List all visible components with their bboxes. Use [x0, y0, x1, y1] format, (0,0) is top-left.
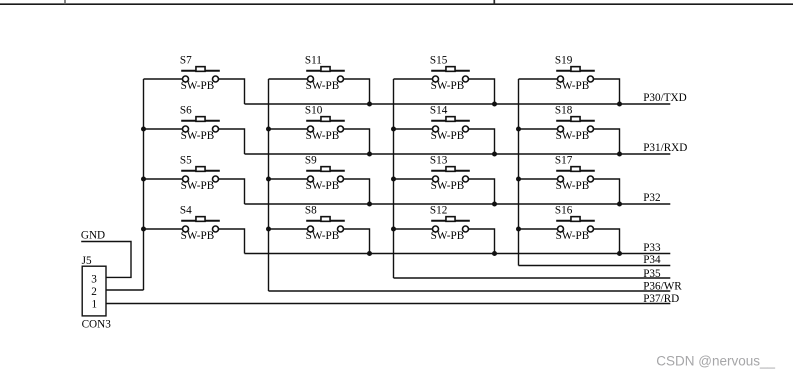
junction: column 4 bus / row 4 — [516, 227, 521, 232]
svg-text:SW-PB: SW-PB — [556, 180, 590, 192]
wire: column 4 bus to P34 line — [519, 265, 671, 267]
border tick 2 — [493, 0, 495, 5]
junction: P31/RXD bus / column 4 drop — [617, 152, 622, 157]
svg-text:S4: S4 — [180, 205, 192, 217]
wire: column 2 bus to P36/WR line — [269, 290, 671, 292]
sheet border line (top) — [0, 3, 793, 5]
push-button switch S13 (SW-PB) — [394, 155, 495, 205]
svg-text:S11: S11 — [305, 55, 322, 67]
svg-text:S16: S16 — [555, 205, 573, 217]
svg-text:S17: S17 — [555, 155, 573, 167]
wire: column 3 bus to P35 line — [394, 277, 671, 279]
svg-text:SW-PB: SW-PB — [306, 130, 340, 142]
push-button switch S6 (SW-PB) — [144, 105, 245, 155]
wire: column 2 bus (to P36/WR) — [268, 79, 270, 291]
junction: P33 bus / column 2 drop — [367, 251, 372, 256]
svg-text:P31/RXD: P31/RXD — [643, 142, 687, 154]
push-button switch S8 (SW-PB) — [269, 205, 370, 254]
wire: J5 pin 2 to column 1 bus — [106, 289, 144, 291]
push-button switch S12 (SW-PB) — [394, 205, 495, 254]
svg-text:P34: P34 — [643, 254, 661, 266]
svg-text:S18: S18 — [555, 105, 573, 117]
svg-text:SW-PB: SW-PB — [181, 130, 215, 142]
junction: P33 bus / column 3 drop — [492, 251, 497, 256]
connector J5 (CON3) body — [82, 266, 106, 316]
wire: column 1 bus (to J5 pin 2) — [143, 79, 145, 290]
wire: row bus P31/RXD — [245, 153, 671, 155]
svg-text:SW-PB: SW-PB — [556, 230, 590, 242]
svg-text:SW-PB: SW-PB — [431, 230, 465, 242]
push-button switch S5 (SW-PB) — [144, 155, 245, 205]
svg-text:3: 3 — [91, 274, 97, 286]
svg-text:S5: S5 — [180, 155, 192, 167]
svg-text:P30/TXD: P30/TXD — [643, 92, 687, 104]
push-button switch S17 (SW-PB) — [519, 155, 620, 205]
push-button switch S11 (SW-PB) — [269, 55, 370, 105]
junction: column 3 bus / row 4 — [391, 227, 396, 232]
wire: row bus P30/TXD — [245, 103, 671, 105]
junction: P32 bus / column 2 drop — [367, 202, 372, 207]
junction: P30/TXD bus / column 2 drop — [367, 102, 372, 107]
svg-text:S14: S14 — [430, 105, 448, 117]
junction: P32 bus / column 4 drop — [617, 202, 622, 207]
junction: column 1 bus / row 4 — [141, 227, 146, 232]
push-button switch S15 (SW-PB) — [394, 55, 495, 105]
svg-text:P32: P32 — [643, 192, 660, 204]
svg-text:1: 1 — [92, 299, 98, 311]
svg-text:J5: J5 — [82, 255, 92, 267]
svg-text:CSDN @nervous__: CSDN @nervous__ — [656, 354, 775, 369]
push-button switch S18 (SW-PB) — [519, 105, 620, 155]
junction: column 1 bus / row 3 — [141, 177, 146, 182]
svg-text:SW-PB: SW-PB — [306, 80, 340, 92]
svg-text:SW-PB: SW-PB — [556, 80, 590, 92]
push-button switch S14 (SW-PB) — [394, 105, 495, 155]
junction: column 2 bus / row 2 — [266, 127, 271, 132]
push-button switch S7 (SW-PB) — [144, 55, 245, 105]
wire: column 3 bus (to P35) — [393, 79, 395, 278]
push-button switch S16 (SW-PB) — [519, 205, 620, 254]
svg-text:SW-PB: SW-PB — [306, 180, 340, 192]
junction: column 4 bus / row 3 — [516, 177, 521, 182]
junction: column 1 bus / row 2 — [141, 127, 146, 132]
wire: row bus P33 — [245, 253, 671, 255]
svg-text:P36/WR: P36/WR — [643, 281, 682, 293]
junction: P31/RXD bus / column 2 drop — [367, 152, 372, 157]
junction: P32 bus / column 3 drop — [492, 202, 497, 207]
junction: column 2 bus / row 3 — [266, 177, 271, 182]
svg-text:CON3: CON3 — [82, 319, 112, 331]
svg-text:SW-PB: SW-PB — [306, 230, 340, 242]
svg-text:S8: S8 — [305, 205, 317, 217]
svg-text:SW-PB: SW-PB — [431, 180, 465, 192]
junction: column 3 bus / row 3 — [391, 177, 396, 182]
border tick 1 — [64, 0, 66, 4]
svg-text:SW-PB: SW-PB — [181, 80, 215, 92]
wire: J5 pin 1 to P37/RD line — [106, 303, 670, 305]
push-button switch S9 (SW-PB) — [269, 155, 370, 205]
svg-text:2: 2 — [91, 286, 97, 298]
push-button switch S4 (SW-PB) — [144, 205, 245, 254]
svg-text:SW-PB: SW-PB — [556, 130, 590, 142]
svg-text:SW-PB: SW-PB — [431, 130, 465, 142]
svg-text:S12: S12 — [430, 205, 447, 217]
svg-text:S13: S13 — [430, 155, 448, 167]
wire: GND to J5 pin 3 — [81, 242, 131, 278]
svg-text:S15: S15 — [430, 55, 448, 67]
junction: P31/RXD bus / column 3 drop — [492, 152, 497, 157]
svg-text:P37/RD: P37/RD — [643, 293, 679, 305]
svg-text:S7: S7 — [180, 55, 192, 67]
svg-text:S19: S19 — [555, 55, 573, 67]
svg-text:S9: S9 — [305, 155, 317, 167]
junction: column 2 bus / row 4 — [266, 227, 271, 232]
svg-text:S6: S6 — [180, 105, 192, 117]
junction: P33 bus / column 4 drop — [617, 251, 622, 256]
svg-text:P33: P33 — [643, 242, 661, 254]
push-button switch S19 (SW-PB) — [519, 55, 620, 105]
svg-text:SW-PB: SW-PB — [181, 180, 215, 192]
junction: column 3 bus / row 2 — [391, 127, 396, 132]
junction: P30/TXD bus / column 4 drop — [617, 102, 622, 107]
svg-text:SW-PB: SW-PB — [431, 80, 465, 92]
wire: row bus P32 — [245, 203, 671, 205]
svg-text:SW-PB: SW-PB — [181, 230, 215, 242]
wire: column 4 bus (to P34) — [518, 79, 520, 266]
junction: P30/TXD bus / column 3 drop — [492, 102, 497, 107]
svg-text:GND: GND — [81, 230, 105, 242]
junction: column 4 bus / row 2 — [516, 127, 521, 132]
svg-text:S10: S10 — [305, 105, 323, 117]
svg-text:P35: P35 — [643, 268, 661, 280]
push-button switch S10 (SW-PB) — [269, 105, 370, 155]
